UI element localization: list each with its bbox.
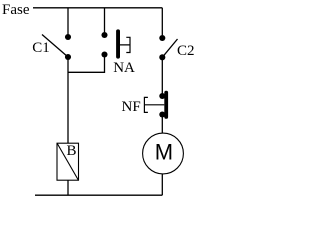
svg-text:NF: NF [122, 99, 141, 115]
pushbutton NA actuator bracket [120, 37, 130, 52]
svg-text:C2: C2 [177, 43, 195, 59]
wire coil B to bottom bus [67, 180, 69, 195]
wire top horizontal bus [33, 7, 162, 9]
coil B box [57, 143, 79, 180]
node C2 lower contact [159, 54, 165, 60]
pushbutton NF bridge bar [164, 91, 168, 119]
svg-text:B: B [67, 143, 77, 159]
wire NF to motor [161, 117, 163, 134]
motor M1 circle [143, 133, 184, 174]
node C1 upper contact [65, 34, 71, 40]
coil B diagonal [57, 143, 78, 180]
wire NA branch drop [104, 8, 106, 33]
node C2 upper contact [159, 35, 165, 41]
node NF upper contact [159, 93, 165, 99]
node NA upper contact [101, 32, 107, 38]
contact C2 blade [162, 39, 177, 57]
wire NA lower to junction with C1 branch [68, 57, 105, 72]
wire C2 branch drop [161, 8, 163, 35]
node NA lower contact [101, 51, 107, 57]
wire C1 branch down to coil B [67, 59, 69, 143]
svg-text:M: M [155, 140, 173, 165]
wire C2 branch down to NF [161, 60, 163, 94]
node C1 lower contact [65, 54, 71, 60]
wire bottom horizontal bus [35, 194, 162, 196]
node NF lower contact [159, 111, 165, 117]
pushbutton NA bridge bar [116, 29, 120, 58]
svg-text:NA: NA [113, 60, 135, 76]
svg-text:Fase: Fase [2, 2, 30, 18]
wire motor to bottom bus [161, 174, 163, 195]
svg-text:C1: C1 [32, 40, 50, 56]
contact C1 blade [42, 35, 68, 58]
wire C1 branch drop [67, 8, 69, 35]
pushbutton NF actuator bracket [144, 97, 164, 112]
